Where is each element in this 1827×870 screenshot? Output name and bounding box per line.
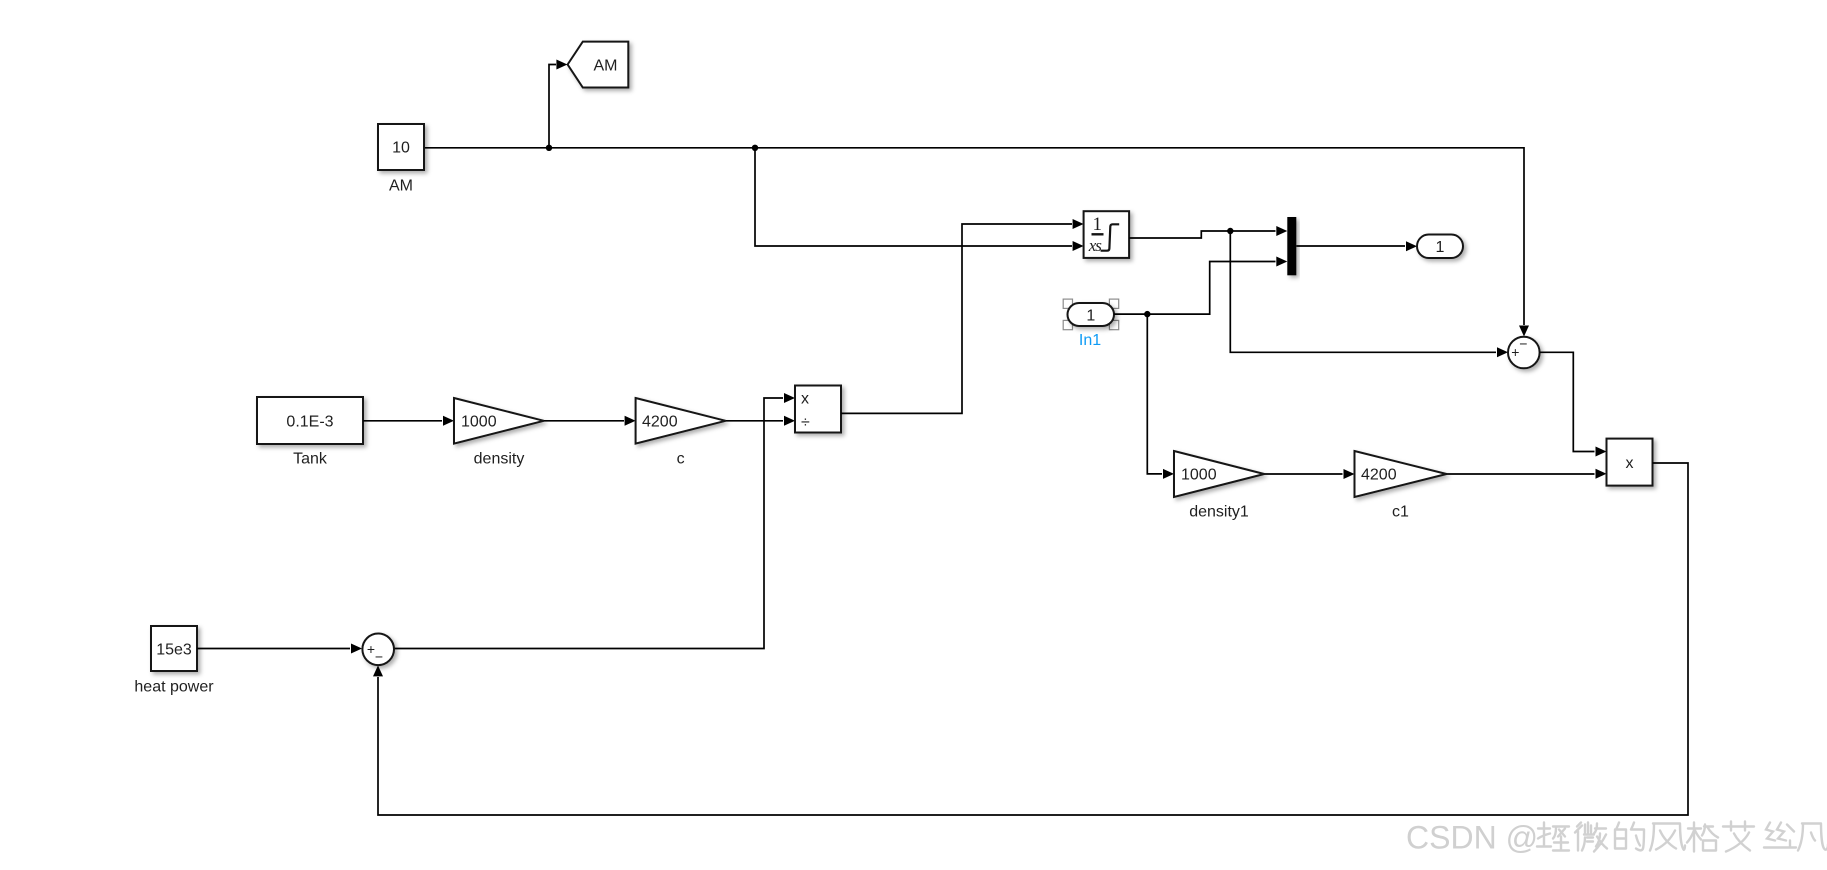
svg-text:In1: In1	[1079, 332, 1101, 349]
gain c 4200	[636, 398, 726, 468]
svg-text:−: −	[375, 649, 383, 665]
watermark CSDN	[1406, 819, 1538, 855]
integrator block 1/xs (limited)	[1084, 211, 1130, 258]
svg-text:1: 1	[1436, 239, 1445, 256]
wire: Tank to gain density	[363, 416, 454, 426]
goto tag AM	[568, 42, 629, 88]
node: junction on AM trunk feeding integrator lower input	[752, 145, 758, 151]
wire: junction down to Sum1 left input	[1230, 231, 1508, 357]
constant block AM value 10	[378, 124, 424, 195]
gain c1 4200	[1355, 451, 1447, 521]
svg-text:−: −	[1519, 336, 1527, 352]
wire: density to gain c	[544, 416, 636, 426]
svg-text:1000: 1000	[461, 413, 497, 430]
svg-text:CSDN @: CSDN @	[1406, 819, 1538, 855]
svg-text:+: +	[1511, 344, 1519, 360]
wire: branch up to Goto AM tag	[549, 60, 567, 148]
input port In1 (selected)	[1063, 299, 1119, 349]
gain density1 1000	[1174, 451, 1264, 521]
node: junction on integrator output branch	[1227, 228, 1233, 234]
svg-text:+: +	[367, 641, 375, 657]
svg-text:density: density	[474, 451, 525, 468]
wire: divide output to integrator upper input	[841, 219, 1084, 413]
svg-text:10: 10	[392, 140, 410, 157]
svg-text:15e3: 15e3	[156, 641, 192, 658]
svg-text:heat power: heat power	[134, 679, 214, 696]
svg-text:xs: xs	[1088, 236, 1103, 255]
svg-text:density1: density1	[1189, 504, 1249, 521]
divide block	[795, 386, 841, 433]
product block x	[1607, 439, 1653, 486]
watermark chinese glyphs (drawn)	[1537, 822, 1827, 852]
wire: heat power to Sum2	[197, 644, 362, 654]
wire: In1 output to mux input 2	[1114, 257, 1287, 315]
svg-text:0.1E-3: 0.1E-3	[286, 413, 333, 430]
svg-text:4200: 4200	[642, 413, 678, 430]
wire: Sum2 output up to divide upper input	[394, 393, 795, 649]
wire: Sum1 output to product upper input	[1540, 352, 1607, 456]
svg-text:x: x	[1626, 455, 1634, 472]
wire: gain c to divide lower input	[726, 416, 795, 426]
wire: density1 to gain c1	[1264, 469, 1354, 479]
wire: integrator output to mux input 1	[1129, 226, 1287, 238]
svg-text:1000: 1000	[1181, 466, 1217, 483]
constant block heat power 15e3	[134, 626, 214, 696]
svg-text:AM: AM	[594, 57, 618, 74]
wire: branch down to integrator lower input	[755, 148, 1084, 251]
svg-text:c: c	[677, 451, 685, 468]
wire: mux output to Out1	[1296, 241, 1417, 251]
node: junction on AM trunk feeding Goto tag	[546, 145, 552, 151]
constant block Tank value 0.1E-3	[257, 397, 363, 468]
svg-text:c1: c1	[1392, 504, 1409, 521]
svg-text:Tank: Tank	[293, 451, 328, 468]
svg-text:1: 1	[1086, 307, 1095, 324]
node: junction on In1 output	[1144, 311, 1150, 317]
mux block	[1287, 217, 1296, 275]
wire: junction down to gain density1	[1147, 314, 1174, 479]
svg-text:x: x	[801, 391, 809, 408]
sum block Sum2 (+ -)	[362, 634, 394, 666]
wire: c1 to product lower input	[1447, 469, 1607, 479]
svg-text:1: 1	[1093, 214, 1103, 235]
wire: product output feedback loop to Sum2	[373, 463, 1688, 815]
svg-text:4200: 4200	[1361, 466, 1397, 483]
output port Out1	[1417, 235, 1463, 259]
gain density 1000	[454, 398, 544, 468]
svg-text:÷: ÷	[801, 414, 810, 431]
svg-text:AM: AM	[389, 178, 413, 195]
sum block Sum1 (+ -)	[1508, 336, 1540, 369]
wire: constant AM output trunk to Sum1 top	[424, 148, 1529, 337]
